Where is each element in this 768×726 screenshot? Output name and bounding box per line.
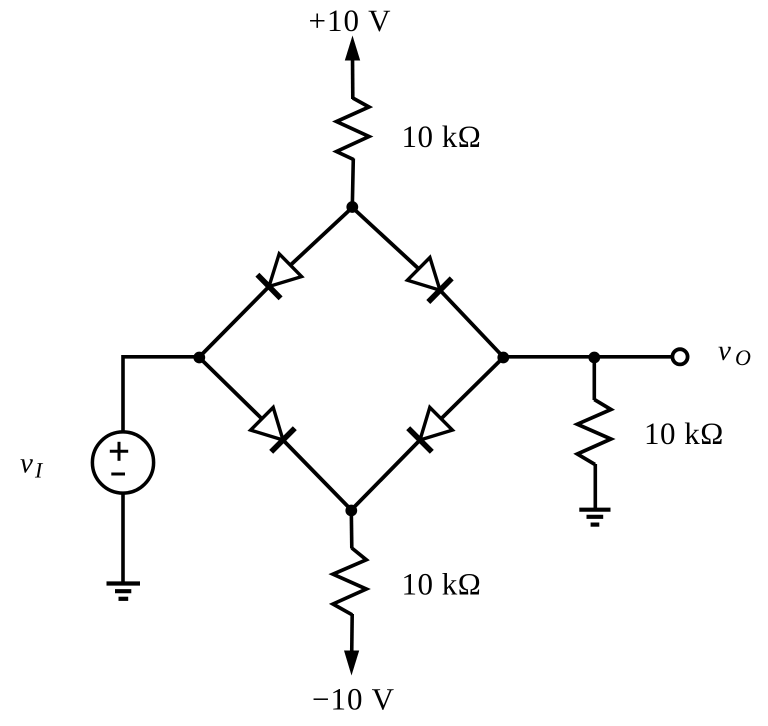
- resistor R2 10 kOhm (output load): [577, 400, 611, 465]
- right node: [497, 352, 509, 364]
- wire junction to R2: [592, 358, 596, 401]
- resistor R1 10 kOhm (top): [337, 98, 370, 160]
- ground (vI branch): [107, 584, 141, 599]
- left node: [193, 352, 205, 364]
- wire vI to ground: [121, 492, 125, 584]
- junction node at output resistor: [588, 352, 600, 364]
- svg-text:v: v: [20, 448, 33, 480]
- label 10 kOhm (R3): [402, 567, 482, 602]
- label -10 V: [312, 682, 395, 717]
- resistor R3 10 kOhm (bottom): [333, 548, 366, 615]
- output terminal (open circle): [672, 349, 687, 364]
- label 10 kOhm (R1): [402, 119, 482, 154]
- top node: [346, 201, 358, 213]
- +10 V supply arrow: [345, 36, 360, 100]
- bottom node: [345, 505, 357, 517]
- wire bottom node to R3: [349, 511, 353, 549]
- svg-text:O: O: [735, 345, 751, 370]
- label +10 V: [308, 3, 391, 38]
- diode D3 (left node to bottom node): [251, 407, 295, 451]
- svg-text:10 kΩ: 10 kΩ: [402, 119, 482, 154]
- wire R1 to top node: [352, 159, 353, 208]
- wire R2 to ground: [593, 464, 597, 509]
- svg-text:10 kΩ: 10 kΩ: [402, 567, 482, 602]
- wire left node to vI source: [123, 357, 199, 433]
- diode D2 (top node to right node): [407, 258, 451, 303]
- wire D4 to bottom node: [351, 440, 420, 510]
- wire D1 to left node: [199, 287, 269, 358]
- wire right node to output terminal: [503, 355, 672, 359]
- ground (output branch): [579, 510, 610, 525]
- label 10 kOhm (R2): [644, 416, 724, 451]
- wire top node to diode D2: [352, 208, 418, 269]
- wire left node to diode D3: [199, 358, 261, 419]
- label vO: [718, 335, 751, 370]
- wire top node to diode D1: [290, 208, 352, 266]
- wire right node to diode D4: [441, 358, 503, 419]
- diode D4 (right node to bottom node): [408, 407, 452, 451]
- -10 V supply arrow: [344, 614, 359, 676]
- diode D1 (top node to left node): [257, 254, 301, 298]
- svg-text:10 kΩ: 10 kΩ: [644, 416, 724, 451]
- wire D2 to right node: [440, 290, 503, 357]
- svg-text:−10 V: −10 V: [312, 682, 395, 717]
- svg-text:+10 V: +10 V: [308, 3, 391, 38]
- label vI: [20, 448, 44, 483]
- svg-text:v: v: [718, 335, 731, 367]
- source vI (+/- circle): [92, 432, 153, 493]
- wire D3 to bottom node: [283, 440, 351, 510]
